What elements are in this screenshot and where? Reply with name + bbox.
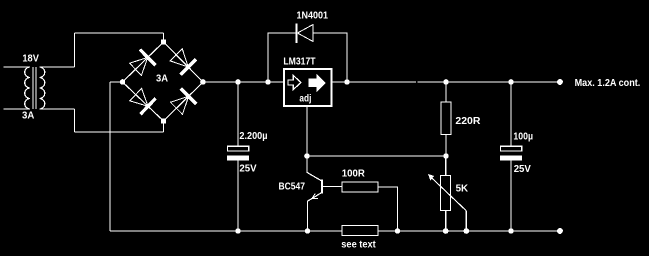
node emitter ground <box>305 228 311 234</box>
svg-text:3A: 3A <box>156 74 169 85</box>
wire ground rail left section <box>110 230 342 232</box>
node ground terminal <box>557 228 563 234</box>
node adj right <box>443 153 449 159</box>
capacitor C1 negative plate <box>227 155 249 160</box>
wire output rail segment 1 <box>333 81 416 83</box>
wire bridge negative node left <box>110 81 123 83</box>
resistor R1 220R bottom lead <box>445 135 447 157</box>
node D5 right <box>344 79 350 85</box>
resistor R1 220R top lead <box>445 82 447 102</box>
diode D3 bottom-left triangle <box>130 88 148 106</box>
svg-text:100µ: 100µ <box>513 131 533 142</box>
resistor R2 100R body <box>342 182 378 192</box>
svg-text:5K: 5K <box>456 183 469 194</box>
regulator U1 adj pin <box>306 107 308 156</box>
wire corner up <box>74 33 76 67</box>
node output terminal <box>557 79 563 85</box>
potentiometer P1 5K bottom lead <box>445 211 447 232</box>
svg-text:220R: 220R <box>455 116 481 127</box>
node bridge left <box>120 79 126 85</box>
wire output rail segment 2 <box>417 81 560 83</box>
diode D3 bottom-left bar <box>140 98 155 114</box>
transistor Q1 emitter lead <box>308 193 322 231</box>
svg-text:Max. 1.2A cont.: Max. 1.2A cont. <box>575 78 641 89</box>
regulator U1 input arrow (hollow) <box>288 76 301 90</box>
node P1 ground <box>443 228 449 234</box>
transformer TR1 primary winding <box>25 67 30 109</box>
resistor R2 100R right lead <box>378 187 398 231</box>
transistor Q1 base lead <box>323 186 342 188</box>
resistor R3 sense body <box>342 226 378 236</box>
diode D1 top-left triangle <box>130 57 148 75</box>
resistor R1 220R body <box>441 102 451 135</box>
regulator U1 output arrow (solid) <box>309 75 325 91</box>
capacitor C2 positive plate <box>501 146 522 151</box>
potentiometer P1 5K body <box>441 176 451 211</box>
wire 1N4001 left lead <box>268 33 297 82</box>
svg-text:18V: 18V <box>22 53 39 64</box>
wire adj node horizontal <box>307 155 446 157</box>
capacitor C1 positive plate <box>228 146 249 151</box>
diode D4 bottom-right triangle <box>171 96 189 114</box>
wire top horizontal to bridge AC1 <box>75 32 164 34</box>
wire bottom horizontal to bridge AC2 <box>75 131 164 133</box>
potentiometer P1 wiper arrow shaft <box>430 176 466 211</box>
capacitor C1 bottom lead <box>237 161 239 231</box>
wire positive rail bridge to regulator <box>203 81 283 83</box>
svg-text:adj: adj <box>299 93 311 104</box>
node C1 bottom <box>235 228 241 234</box>
potentiometer P1 wiper lead down <box>465 211 467 231</box>
bridge rectifier diamond edges <box>123 42 204 121</box>
transistor Q1 base bar <box>321 180 323 194</box>
capacitor C2 bottom lead <box>510 161 512 231</box>
capacitor C2 negative plate <box>500 155 522 160</box>
node C2 bottom <box>508 228 514 234</box>
potentiometer P1 wiper arrowhead <box>428 174 434 181</box>
transistor Q1 emitter arrowhead <box>312 194 318 199</box>
wire negative vertical down <box>109 82 111 231</box>
node bridge right <box>200 79 206 85</box>
diode D2 top-right triangle <box>170 49 188 67</box>
wire ground rail right section <box>378 230 560 232</box>
svg-text:25V: 25V <box>239 163 256 174</box>
svg-text:100R: 100R <box>342 169 366 180</box>
node R1 top <box>443 79 449 85</box>
node R2 ground <box>395 228 401 234</box>
transformer TR1 primary lead top <box>4 66 31 68</box>
wire secondary bottom <box>40 108 75 110</box>
potentiometer P1 5K top lead <box>445 156 447 176</box>
transformer TR1 secondary winding <box>40 67 45 109</box>
diode D5 1N4001 triangle <box>298 25 314 42</box>
node bridge bottom (square) <box>161 119 166 124</box>
wire into bridge top node <box>163 33 165 42</box>
wire 1N4001 right lead <box>313 33 347 82</box>
capacitor C2 top lead <box>510 82 512 146</box>
svg-text:LM317T: LM317T <box>283 56 316 67</box>
diode D2 top-right bar <box>180 59 196 74</box>
transformer TR1 primary lead bottom <box>4 108 31 110</box>
svg-text:BC547: BC547 <box>279 182 306 193</box>
diode D1 top-left bar <box>140 50 155 66</box>
regulator U1 LM317T body <box>284 69 332 106</box>
diode D5 1N4001 bar <box>296 24 298 44</box>
diode D4 bottom-right bar <box>181 89 196 105</box>
node C1 top <box>235 79 241 85</box>
wire corner down <box>74 109 76 132</box>
node bridge top (square) <box>161 40 166 45</box>
node adj left <box>304 153 310 159</box>
transformer TR1 core <box>33 67 36 109</box>
svg-text:2.200µ: 2.200µ <box>239 131 267 142</box>
node wiper ground <box>464 228 470 234</box>
svg-text:see text: see text <box>341 240 376 251</box>
transistor Q1 collector lead <box>307 156 321 181</box>
node D5 left <box>265 79 271 85</box>
capacitor C1 top lead <box>237 82 239 146</box>
wire into bridge bottom node <box>163 121 165 132</box>
node C2 top <box>508 79 514 85</box>
wire secondary top to corner <box>40 66 75 68</box>
svg-text:3A: 3A <box>22 110 35 121</box>
svg-text:25V: 25V <box>514 164 531 175</box>
svg-text:1N4001: 1N4001 <box>297 11 329 22</box>
